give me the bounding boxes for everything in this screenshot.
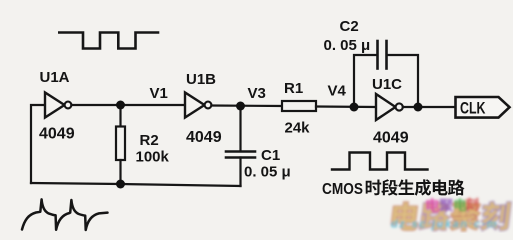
- node junction U1C output: [414, 103, 423, 112]
- caption char 电: [433, 180, 448, 196]
- svg-text:4049: 4049: [186, 129, 222, 146]
- svg-text:R1: R1: [284, 80, 303, 97]
- svg-text:CLK: CLK: [460, 99, 486, 118]
- inverter U1B triangle: [185, 93, 205, 118]
- caption char 时: [366, 180, 381, 196]
- wire: R1 right to U1C input (net V4): [316, 105, 376, 108]
- node junction V1: [116, 101, 125, 110]
- node junction V3: [236, 102, 245, 111]
- wire: V1 node down to R2 top: [119, 105, 121, 127]
- wire: R2 bottom to bottom rail: [119, 160, 121, 184]
- wire: V3 node down to C1 top: [239, 106, 241, 151]
- svg-text:0. 05 μ: 0. 05 μ: [324, 37, 371, 54]
- svg-text:0. 05 μ: 0. 05 μ: [244, 164, 291, 181]
- resistor R2 body: [116, 127, 125, 161]
- waveform icon: capacitor sawtooth (bottom left): [22, 199, 108, 230]
- watermark logo (colorful): [391, 197, 511, 230]
- node junction R2 bottom rail: [116, 180, 125, 189]
- capacitor C1 top plate: [226, 150, 255, 153]
- wire: V4 node riser to C2 left: [354, 55, 377, 107]
- caption char 生: [398, 179, 414, 195]
- svg-text:4049: 4049: [373, 130, 409, 147]
- wire: U1C output to CLK tag: [403, 106, 455, 108]
- capacitor C1 bottom plate: [226, 156, 255, 159]
- svg-text:dz·sc·jukan·c·m: dz·sc·jukan·c·m: [391, 219, 498, 231]
- svg-text:R2: R2: [140, 132, 159, 149]
- wire: U1A output to U1B input (net V1): [71, 104, 185, 106]
- wire: bottom feedback rail: [31, 183, 241, 186]
- inverter U1B output bubble: [205, 102, 212, 109]
- svg-text:CMOS: CMOS: [322, 181, 363, 198]
- svg-text:U1A: U1A: [40, 69, 70, 86]
- svg-text:100k: 100k: [136, 149, 170, 166]
- svg-text:U1B: U1B: [186, 71, 216, 88]
- inverter U1A triangle: [45, 93, 65, 118]
- waveform icon: input square wave: [59, 33, 158, 49]
- svg-text:V1: V1: [150, 85, 168, 102]
- wire: C1 bottom to bottom rail: [239, 158, 241, 187]
- caption char 段: [381, 179, 397, 195]
- svg-text:C1: C1: [261, 147, 280, 164]
- wire: U1B output to R1 left (net V3): [211, 104, 282, 107]
- capacitor C2 right plate: [385, 41, 388, 69]
- svg-text:C2: C2: [340, 18, 359, 35]
- svg-text:V4: V4: [328, 83, 347, 100]
- caption char 成: [415, 179, 431, 196]
- inverter U1C triangle: [376, 94, 396, 120]
- svg-text:U1C: U1C: [372, 76, 402, 93]
- node junction V4: [350, 103, 359, 112]
- output tag CLK shape: [456, 97, 510, 118]
- svg-text:V3: V3: [248, 85, 266, 102]
- caption char 路: [448, 179, 465, 195]
- inverter U1C output bubble: [396, 103, 403, 110]
- wire: C2 right down to U1C output node: [387, 55, 418, 107]
- inverter U1A output bubble: [65, 102, 72, 109]
- wire: U1A input from feedback (left vertical): [31, 105, 45, 183]
- svg-text:24k: 24k: [285, 120, 311, 137]
- waveform icon: output square wave: [332, 153, 428, 170]
- svg-text:4049: 4049: [39, 126, 75, 143]
- capacitor C2 left plate: [376, 41, 379, 69]
- resistor R1 body: [282, 101, 316, 111]
